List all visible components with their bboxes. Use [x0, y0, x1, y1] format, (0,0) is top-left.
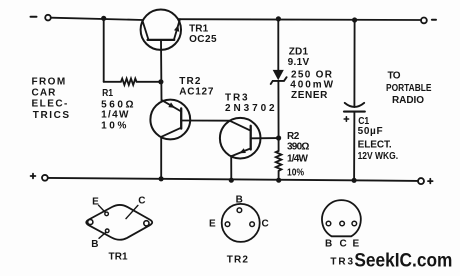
svg-text:B: B — [325, 238, 332, 249]
svg-text:1/4W: 1/4W — [101, 110, 129, 121]
label TRICS — [33, 110, 70, 121]
label TR2 type AC127 — [179, 87, 214, 98]
label ZD1 voltage — [288, 57, 310, 68]
label ZD1 — [289, 47, 309, 58]
svg-text:B: B — [91, 239, 98, 250]
zener diode ZD1 — [271, 70, 287, 84]
package outline TR3 TO-92 — [322, 200, 361, 236]
package outline TR1 TO-3 — [86, 205, 152, 240]
label R1 value 560 ohm — [101, 99, 133, 110]
watermark SeekIC.com — [354, 251, 452, 272]
TR3 pin label E — [353, 238, 360, 249]
label R2 tolerance — [287, 168, 304, 179]
TR2 pin B hole — [237, 208, 242, 213]
wire C1 lower lead — [353, 112, 355, 181]
node junction C1 bottom — [352, 178, 357, 183]
wire zener to R2 — [277, 81, 279, 151]
terminal positive left — [31, 174, 48, 181]
svg-text:10%: 10% — [287, 168, 304, 179]
label TR3 type 2N3702 — [225, 103, 275, 114]
terminal positive right — [418, 178, 433, 184]
svg-text:R1: R1 — [102, 88, 113, 99]
svg-text:PORTABLE: PORTABLE — [386, 83, 432, 94]
TR3 pin label C — [340, 238, 347, 249]
TR1 pin label B — [91, 232, 106, 250]
TR1 pin B hole — [105, 229, 109, 233]
svg-text:ELEC-: ELEC- — [32, 98, 68, 109]
svg-text:TR1: TR1 — [189, 24, 209, 35]
svg-text:C: C — [340, 238, 347, 249]
package outline TR2 TO-1 — [222, 204, 260, 242]
svg-text:R2: R2 — [287, 131, 300, 142]
label TR2 — [179, 76, 201, 87]
transistor TR3 — [220, 118, 261, 159]
svg-text:12V WKG.: 12V WKG. — [358, 151, 399, 162]
label CAR — [32, 87, 57, 98]
wire TR3 emitter drop — [230, 156, 232, 180]
wire TR2 emitter drop — [160, 137, 162, 178]
label C1 polarity plus — [344, 117, 348, 121]
label C1 elect — [358, 139, 392, 150]
label ZD1 power 250 — [291, 69, 333, 80]
label ZD1 zener — [291, 90, 328, 101]
label C1 — [358, 116, 369, 127]
label TR1 pinout — [109, 252, 129, 263]
svg-text:B: B — [236, 195, 243, 206]
svg-text:E: E — [209, 219, 216, 230]
wire bottom rail — [48, 178, 418, 181]
svg-text:TR2: TR2 — [179, 76, 201, 87]
svg-text:50µF: 50µF — [358, 126, 383, 137]
TR3 pin C hole — [340, 221, 345, 226]
wire R1 left drop — [103, 18, 105, 82]
node junction C1 top — [352, 17, 357, 22]
svg-text:C: C — [138, 196, 145, 207]
wire top rail left — [51, 18, 143, 20]
node junction R1 top — [101, 16, 106, 21]
transistor TR1 — [141, 10, 181, 50]
resistor R2 — [276, 151, 282, 180]
label R2 value 390 ohm — [287, 142, 309, 153]
label C1 working voltage — [358, 151, 399, 162]
TR3 pin B hole — [326, 221, 331, 226]
TR1 mounting hole left — [88, 219, 93, 224]
svg-text:TR3: TR3 — [225, 93, 248, 104]
TR3 pin E hole — [352, 221, 357, 226]
node junction R2 bottom — [276, 178, 281, 183]
svg-text:CAR: CAR — [32, 87, 57, 98]
TR2 pin C hole — [250, 222, 255, 227]
TR2 pin E hole — [225, 222, 230, 227]
svg-text:E: E — [92, 197, 99, 208]
svg-text:ELECT.: ELECT. — [358, 139, 392, 150]
svg-text:RADIO: RADIO — [392, 95, 424, 106]
label C1 value 50uF — [358, 126, 383, 137]
label TR1 type OC25 — [189, 34, 217, 45]
label TR3 pinout — [330, 256, 353, 267]
svg-text:10%: 10% — [101, 121, 126, 132]
wire TR3 base to node — [251, 137, 278, 139]
node junction zener top rail — [276, 16, 281, 21]
label R1 wattage — [101, 110, 129, 121]
transistor TR2 — [150, 100, 190, 140]
svg-text:TR2: TR2 — [227, 254, 249, 265]
label FROM — [32, 77, 66, 88]
wire top rail right — [179, 18, 421, 21]
svg-text:FROM: FROM — [32, 77, 66, 88]
label R2 — [287, 131, 300, 142]
svg-text:OC25: OC25 — [189, 34, 217, 45]
svg-text:TO: TO — [388, 71, 401, 82]
TR1 mounting hole right — [144, 221, 149, 226]
TR1 pin label C — [126, 196, 146, 219]
svg-text:TR3: TR3 — [330, 256, 353, 267]
label TR3 — [225, 93, 248, 104]
TR2 pin label B — [236, 195, 243, 206]
wire zener branch upper — [277, 19, 279, 70]
node junction TR3 emitter bottom — [229, 178, 234, 183]
label PORTABLE — [386, 83, 432, 94]
wire TR1 base to node — [160, 40, 163, 100]
TR2 pin label E — [209, 219, 216, 230]
svg-text:SeekIC.com: SeekIC.com — [354, 251, 452, 272]
node junction TR3 base / R2 top — [276, 135, 281, 140]
label RADIO — [392, 95, 424, 106]
wire TR2 base to TR3 — [181, 120, 230, 122]
node junction TR2 emitter bottom — [159, 176, 164, 181]
capacitor C1 — [344, 103, 365, 112]
svg-text:1/4W: 1/4W — [287, 154, 309, 165]
label TR2 pinout — [227, 254, 249, 265]
label TO — [388, 71, 401, 82]
label ELEC- — [32, 98, 68, 109]
label ZD1 power 400 — [290, 80, 333, 91]
label R2 wattage — [287, 154, 309, 165]
svg-text:AC127: AC127 — [179, 87, 214, 98]
TR1 pin label E — [92, 197, 105, 213]
svg-text:9.1V: 9.1V — [288, 57, 310, 68]
svg-text:TR1: TR1 — [109, 252, 129, 263]
TR2 pin label C — [262, 219, 269, 230]
resistor R1 — [104, 79, 160, 85]
terminal negative right — [421, 18, 436, 24]
label R1 — [102, 88, 113, 99]
node junction R1 / TR1 base / TR2 collector — [158, 79, 163, 84]
svg-text:C: C — [262, 219, 269, 230]
label R1 tolerance — [101, 121, 126, 132]
label TR1 — [189, 24, 209, 35]
svg-text:390Ω: 390Ω — [287, 142, 309, 153]
TR3 pin label B — [325, 238, 332, 249]
svg-text:E: E — [353, 238, 360, 249]
svg-text:TRICS: TRICS — [33, 110, 70, 121]
wire C1 upper lead — [353, 20, 355, 107]
svg-text:ZENER: ZENER — [291, 90, 328, 101]
TR1 pin E hole — [105, 212, 109, 216]
terminal negative left — [31, 15, 51, 21]
